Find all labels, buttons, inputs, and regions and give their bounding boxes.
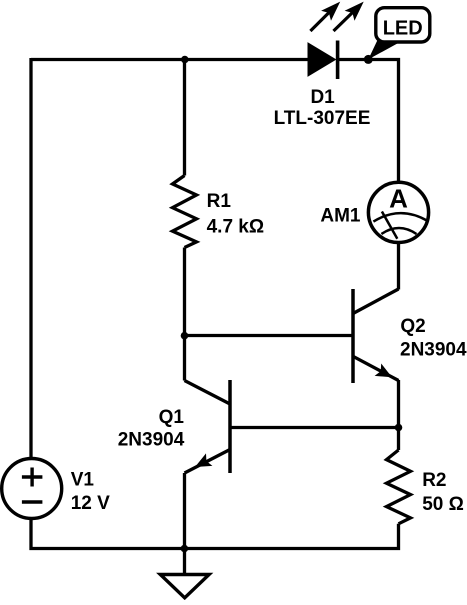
wire: R2 node down to R2 [397, 428, 400, 451]
ammeter AM1 [368, 182, 428, 242]
wire: bottom rail right section [184, 524, 399, 549]
wire: junction to Q2 base [185, 334, 354, 337]
label D1 LTL-307EE [274, 87, 371, 129]
svg-text:LTL-307EE: LTL-307EE [274, 108, 371, 129]
svg-text:12 V: 12 V [71, 493, 110, 514]
svg-text:V1: V1 [71, 469, 95, 490]
LED D1 [308, 2, 368, 79]
svg-text:4.7 kΩ: 4.7 kΩ [207, 217, 265, 238]
svg-text:2N3904: 2N3904 [118, 430, 185, 451]
wire: Q1 emitter down to bottom rail [183, 473, 186, 549]
node: LED cathode [364, 55, 373, 64]
voltage source V1 [2, 459, 62, 519]
node: R1 / Q2 base / Q1 collector junction [181, 332, 189, 340]
label Q2 2N3904 [400, 316, 467, 361]
wire: left rail down to V1 top [29, 58, 32, 459]
label R1 4.7 kOhm [207, 191, 265, 238]
wire: top rail from V+ to LED anode [31, 58, 308, 61]
svg-text:A: A [389, 184, 408, 214]
node: ground junction [181, 545, 189, 553]
svg-text:D1: D1 [310, 87, 335, 108]
LED callout [368, 8, 430, 60]
wire: R1 branch top (junction down to R1) [183, 60, 186, 176]
wire: Q2 emitter down to R2 node [397, 380, 400, 428]
svg-text:Q2: Q2 [400, 316, 425, 337]
svg-text:AM1: AM1 [320, 205, 361, 226]
label V1 12 V [71, 469, 110, 514]
transistor Q2 [353, 289, 399, 383]
transistor Q1 [185, 380, 231, 473]
node: top rail / R1 branch junction [181, 56, 189, 64]
svg-text:50 Ω: 50 Ω [422, 494, 464, 515]
wire: junction down to Q1 collector [183, 336, 186, 381]
wire: LED cathode node right and down to ammeter top [368, 60, 398, 183]
resistor R1 [173, 176, 197, 248]
node: Q1 base / Q2 emitter / R2 junction [395, 424, 403, 432]
wire: V1 bottom to bottom rail [31, 519, 185, 549]
wire: node to Q1 base [230, 426, 399, 429]
svg-text:Q1: Q1 [159, 407, 185, 428]
label R2 50 Ohm [422, 470, 464, 515]
svg-text:R2: R2 [422, 470, 446, 491]
label Q1 2N3904 [118, 407, 185, 450]
svg-text:2N3904: 2N3904 [400, 340, 467, 361]
wire: R1 bottom to base junction [183, 248, 186, 337]
svg-text:LED: LED [383, 17, 423, 39]
ground [160, 549, 209, 598]
wire: Q2 collector up to ammeter bottom [397, 243, 400, 290]
svg-text:R1: R1 [207, 191, 232, 212]
resistor R2 [387, 450, 411, 524]
